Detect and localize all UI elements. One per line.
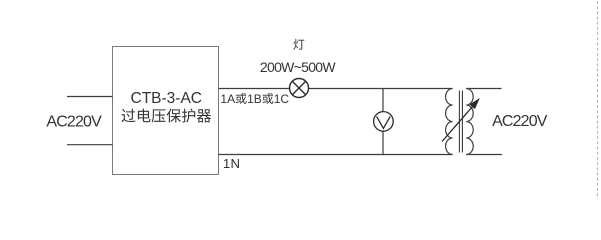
svg-text:1B: 1B bbox=[247, 92, 262, 106]
svg-text:AC220V: AC220V bbox=[46, 114, 102, 131]
svg-text:1N: 1N bbox=[223, 156, 240, 171]
svg-text:1C: 1C bbox=[274, 92, 290, 106]
svg-text:CTB-3-AC: CTB-3-AC bbox=[131, 90, 202, 107]
svg-text:AC220V: AC220V bbox=[492, 113, 548, 130]
svg-text:200W~500W: 200W~500W bbox=[260, 59, 337, 75]
svg-text:1A: 1A bbox=[220, 92, 235, 106]
